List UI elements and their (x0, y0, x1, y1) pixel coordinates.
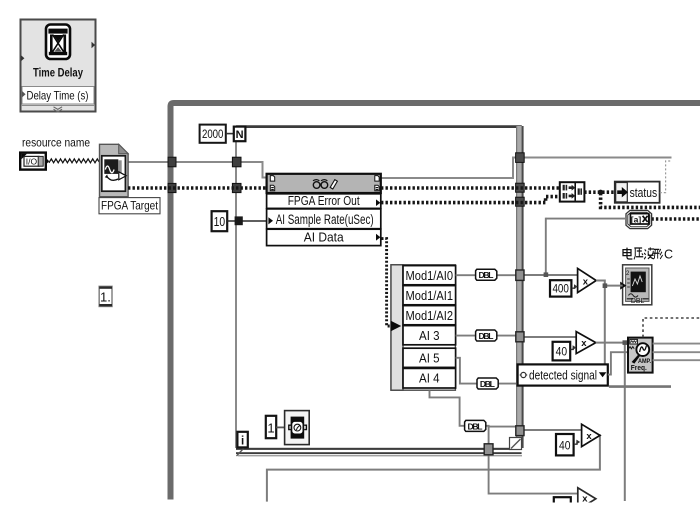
svg-text:AI 5: AI 5 (419, 351, 440, 365)
svg-text:1: 1 (267, 420, 274, 435)
svg-text:C: C (664, 248, 673, 262)
svg-text:Mod1/AI2: Mod1/AI2 (406, 309, 454, 323)
svg-text:x: x (581, 338, 587, 349)
svg-text:40: 40 (559, 439, 571, 453)
svg-text:Delay Time (s): Delay Time (s) (27, 89, 89, 103)
svg-text:FPGA Target: FPGA Target (101, 198, 159, 212)
svg-text:x: x (586, 431, 592, 442)
svg-text:Time Delay: Time Delay (33, 66, 83, 80)
svg-text:400: 400 (552, 282, 569, 296)
svg-text:DBL: DBL (479, 331, 494, 341)
svg-text:AI Data: AI Data (304, 230, 345, 245)
svg-text:[a]: [a] (631, 214, 642, 224)
svg-text:AI 4: AI 4 (419, 372, 440, 386)
svg-text:Mod1/AI1: Mod1/AI1 (406, 289, 454, 303)
svg-text:N: N (236, 129, 244, 141)
svg-text:AI 3: AI 3 (419, 329, 440, 343)
svg-text:AI Sample Rate(uSec): AI Sample Rate(uSec) (276, 212, 374, 227)
svg-text:AMP.: AMP. (638, 358, 651, 365)
svg-text:status: status (630, 186, 658, 200)
svg-text:i: i (241, 436, 244, 448)
svg-text:1.: 1. (100, 289, 111, 304)
svg-text:DBL: DBL (468, 421, 483, 431)
svg-text:10: 10 (214, 215, 226, 229)
svg-text:DBL: DBL (480, 379, 495, 389)
svg-text:FPGA Error Out: FPGA Error Out (288, 194, 360, 208)
svg-text:Mod1/AI0: Mod1/AI0 (406, 269, 454, 283)
svg-text:resource name: resource name (22, 136, 90, 150)
svg-text:detected signal: detected signal (529, 367, 597, 382)
svg-text:DBL: DBL (479, 270, 494, 280)
svg-text:2000: 2000 (202, 127, 224, 141)
svg-text:x: x (583, 276, 589, 287)
svg-text:I/O: I/O (26, 157, 38, 167)
svg-text:40: 40 (556, 345, 568, 359)
svg-text:Freq.: Freq. (631, 365, 647, 372)
